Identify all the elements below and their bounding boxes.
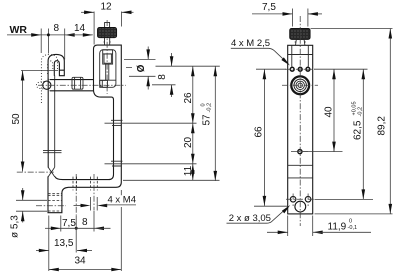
svg-text:50: 50	[11, 113, 22, 125]
svg-text:4 x M4: 4 x M4	[108, 195, 137, 206]
top reference extension line	[156, 65, 220, 67]
svg-text:-0,1: -0,1	[348, 225, 358, 231]
extension lines for WR / 8 / 14	[41, 29, 64, 60]
svg-text:ø 5,3: ø 5,3	[10, 215, 21, 238]
rod end pivot circle	[43, 81, 51, 89]
dimension 11	[183, 164, 195, 181]
WR label and arrow	[7, 24, 41, 37]
svg-text:11,9: 11,9	[328, 221, 347, 232]
dimension 14	[65, 23, 93, 37]
screw centerline	[106, 20, 108, 94]
svg-text:66: 66	[254, 126, 265, 138]
hook lever (solid)	[43, 54, 64, 176]
dimension 62,5 +0,05/-0,2	[315, 69, 374, 199]
bar break marks upper	[111, 120, 123, 125]
rod collar	[72, 77, 83, 89]
lever shaft	[47, 79, 49, 167]
clamp screw (knurled head) on bracket	[98, 23, 117, 46]
rod axis centerline	[38, 84, 126, 86]
dimension 89,2	[311, 29, 393, 214]
M4 holes in arm (hidden lines)	[73, 174, 97, 216]
svg-text:Ø: Ø	[136, 64, 147, 72]
dimension 8 (hook width)	[41, 23, 74, 37]
svg-text:34: 34	[75, 256, 87, 267]
dimension 20	[183, 123, 194, 164]
extension lines at 123 and 164	[105, 122, 197, 124]
mounting plate outline (bracket, vertical bar, arm, foot)	[48, 45, 121, 213]
actuating rod	[38, 77, 126, 91]
svg-text:57: 57	[202, 114, 213, 126]
svg-text:4 x M 2,5: 4 x M 2,5	[231, 38, 270, 49]
dimension 11,9 0/-0,1	[267, 216, 371, 237]
svg-text:8: 8	[157, 74, 168, 80]
bracket pocket	[100, 50, 116, 88]
svg-text:0: 0	[349, 218, 352, 224]
dimension 8 (bore axis to rod axis)	[152, 53, 176, 97]
svg-text:7,5: 7,5	[62, 218, 76, 229]
foot hidden hole lines (slot 5.3)	[36, 194, 66, 211]
extension lines top row	[256, 68, 286, 70]
body	[288, 45, 313, 214]
svg-text:8: 8	[82, 217, 88, 228]
dimension 7,5 (bottom)	[45, 218, 94, 230]
small hole mid body	[291, 150, 309, 154]
svg-text:7,5: 7,5	[262, 2, 276, 13]
M2.5 holes row	[285, 67, 315, 71]
svg-text:40: 40	[324, 106, 335, 118]
label 2 x diameter 3,05 with leader	[227, 205, 291, 224]
label 4 x M 2,5 with leader	[231, 38, 290, 66]
knurled adjusting screw (right view)	[290, 28, 310, 45]
dimension 26	[183, 66, 194, 123]
vertical centerline right view	[299, 16, 301, 226]
dimension diameter 5,3	[10, 188, 48, 238]
bottom holes 2 x 3,05	[286, 194, 315, 213]
screw shaft inside pocket	[103, 50, 113, 81]
svg-text:2 x ø 3,05: 2 x ø 3,05	[229, 213, 271, 224]
dimension 34	[49, 190, 122, 271]
lever break marks	[43, 150, 62, 152]
dimension diameter (rod bore)	[124, 47, 156, 90]
svg-text:13,5: 13,5	[54, 238, 74, 249]
lever break cross	[48, 167, 55, 177]
dimension 57 0/-0.2	[201, 66, 218, 181]
bore centerline stub	[126, 67, 134, 69]
dimension 12	[81, 2, 134, 27]
dimension 7,5 (top)	[252, 2, 322, 27]
svg-text:12: 12	[101, 2, 113, 13]
dimension 13,5	[36, 216, 92, 272]
svg-text:62,5: 62,5	[353, 120, 364, 140]
extension line bracket left edge	[93, 12, 95, 45]
svg-text:8: 8	[54, 23, 60, 34]
svg-text:-0,2: -0,2	[207, 103, 213, 113]
clamp block	[100, 80, 108, 87]
svg-text:WR: WR	[10, 24, 28, 36]
bar break marks lower	[111, 161, 123, 166]
dimension 40	[303, 69, 343, 151]
label 4 x M4 with hole dimension	[74, 195, 137, 211]
dimension 66	[254, 69, 288, 206]
roller / clamp collar circles	[282, 76, 318, 94]
svg-text:-0,2: -0,2	[358, 107, 364, 117]
svg-text:14: 14	[74, 23, 86, 34]
phantom hook (released position, dotted)	[36, 55, 57, 103]
svg-text:89,2: 89,2	[376, 116, 387, 136]
extension line arm top	[123, 179, 220, 181]
dimension 50	[11, 71, 58, 173]
dimension 8 (bottom)	[61, 211, 111, 253]
